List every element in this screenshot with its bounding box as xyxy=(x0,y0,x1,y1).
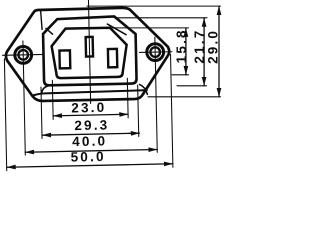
right hole xyxy=(147,44,164,61)
extension line 29.0 bottom xyxy=(148,96,221,98)
extension line 50.0 left xyxy=(4,59,6,171)
svg-text:29.0: 29.0 xyxy=(205,29,220,64)
dim line 21.7 xyxy=(203,18,205,86)
extension line 29.3 right xyxy=(138,85,139,136)
svg-text:40.0: 40.0 xyxy=(72,133,107,149)
pin L (left) xyxy=(59,50,70,68)
gusset top-left diagonal xyxy=(46,28,53,34)
left hole crosshair xyxy=(2,40,46,155)
svg-text:29.3: 29.3 xyxy=(74,117,109,133)
dim line 23.0 xyxy=(53,114,128,116)
extension line 15.8 bottom xyxy=(172,74,189,76)
shroud base left hook xyxy=(41,86,48,94)
dim line 50.0 xyxy=(7,164,173,167)
dim line 29.3 xyxy=(42,133,139,135)
extension line 23.0 right xyxy=(126,78,129,118)
gusset top-left vertical xyxy=(41,11,42,29)
left hole xyxy=(15,46,32,63)
extension line 23.0 left xyxy=(51,80,54,119)
extension line 15.8 top xyxy=(111,27,189,29)
svg-text:23.0: 23.0 xyxy=(71,100,106,116)
extension line 21.7 top xyxy=(117,17,207,19)
gusset bottom-right xyxy=(140,84,148,94)
right hole crosshair xyxy=(139,37,174,153)
extension line 50.0 right xyxy=(171,54,173,167)
pin E (center) xyxy=(86,37,93,57)
dim line 15.8 xyxy=(185,28,187,75)
extension line 29.3 left xyxy=(41,87,42,138)
flange outline xyxy=(5,7,170,102)
recess opening xyxy=(51,27,127,78)
dim line 29.0 xyxy=(218,6,220,97)
centerline xyxy=(88,0,90,103)
pin N (right) xyxy=(108,49,117,67)
extension line 21.7 bottom xyxy=(177,85,207,87)
svg-text:50.0: 50.0 xyxy=(70,149,105,165)
dim line 40.0 xyxy=(25,149,157,152)
IEC C14 inlet dimensional drawing xyxy=(0,0,223,181)
shroud xyxy=(43,16,137,85)
extension line 29.0 top xyxy=(87,5,221,7)
shroud base line xyxy=(34,90,147,95)
gusset top-right xyxy=(107,24,126,35)
svg-text:15.8: 15.8 xyxy=(174,28,189,63)
